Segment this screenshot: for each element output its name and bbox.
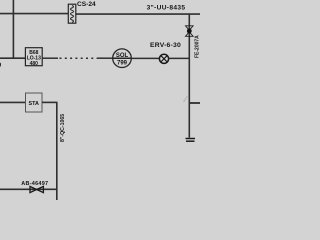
svg-text:STA: STA bbox=[29, 101, 39, 107]
svg-text:FE-2007A: FE-2007A bbox=[195, 35, 201, 58]
solenoid instrument bubble SOL 799 bbox=[113, 49, 132, 68]
valve ERV-6-30 (circle with X) bbox=[159, 54, 168, 63]
wire to STA box bbox=[0, 101, 26, 103]
svg-text:AB-46497: AB-46497 bbox=[21, 181, 48, 187]
svg-text:3"-UU-8435: 3"-UU-8435 bbox=[147, 5, 186, 12]
wire horizontal to instrument box bbox=[0, 57, 25, 59]
wire solid stub right of box bbox=[42, 57, 58, 59]
wire STA box to corner bbox=[42, 101, 58, 103]
svg-text:480: 480 bbox=[30, 61, 39, 67]
wire bottom line to valve AB-46497 bbox=[0, 188, 57, 190]
wire left vertical drop bbox=[56, 102, 58, 200]
wire main header line right of strainer bbox=[76, 13, 200, 15]
svg-text:ERV-6-30: ERV-6-30 bbox=[150, 42, 181, 49]
wire dashed signal line bbox=[60, 57, 99, 59]
strainer CS-24 bbox=[68, 4, 76, 23]
wire right branch to edge bbox=[189, 102, 200, 104]
svg-text:8"-QC-1065: 8"-QC-1065 bbox=[60, 114, 66, 142]
station box STA bbox=[26, 93, 43, 112]
wire right vertical header bbox=[188, 14, 190, 138]
blind cap at line end bbox=[186, 139, 196, 142]
wire faint tick near branch bbox=[184, 96, 188, 102]
ball valve FE-2007A bbox=[186, 26, 194, 37]
svg-text:799: 799 bbox=[117, 61, 128, 67]
wire solenoid to valve ERV-6-30 bbox=[131, 57, 159, 59]
wire left vertical branch bbox=[12, 0, 14, 58]
svg-text:SOL: SOL bbox=[116, 53, 129, 59]
valve AB-46497 (gate valve) bbox=[30, 186, 43, 192]
wire main header line left of strainer bbox=[0, 13, 68, 15]
wire solid stub left of solenoid bubble bbox=[98, 57, 113, 59]
wire valve to right header bbox=[169, 57, 190, 59]
svg-text:CS-24: CS-24 bbox=[77, 1, 96, 8]
instrument box B68 LO-13 480 bbox=[25, 48, 42, 67]
